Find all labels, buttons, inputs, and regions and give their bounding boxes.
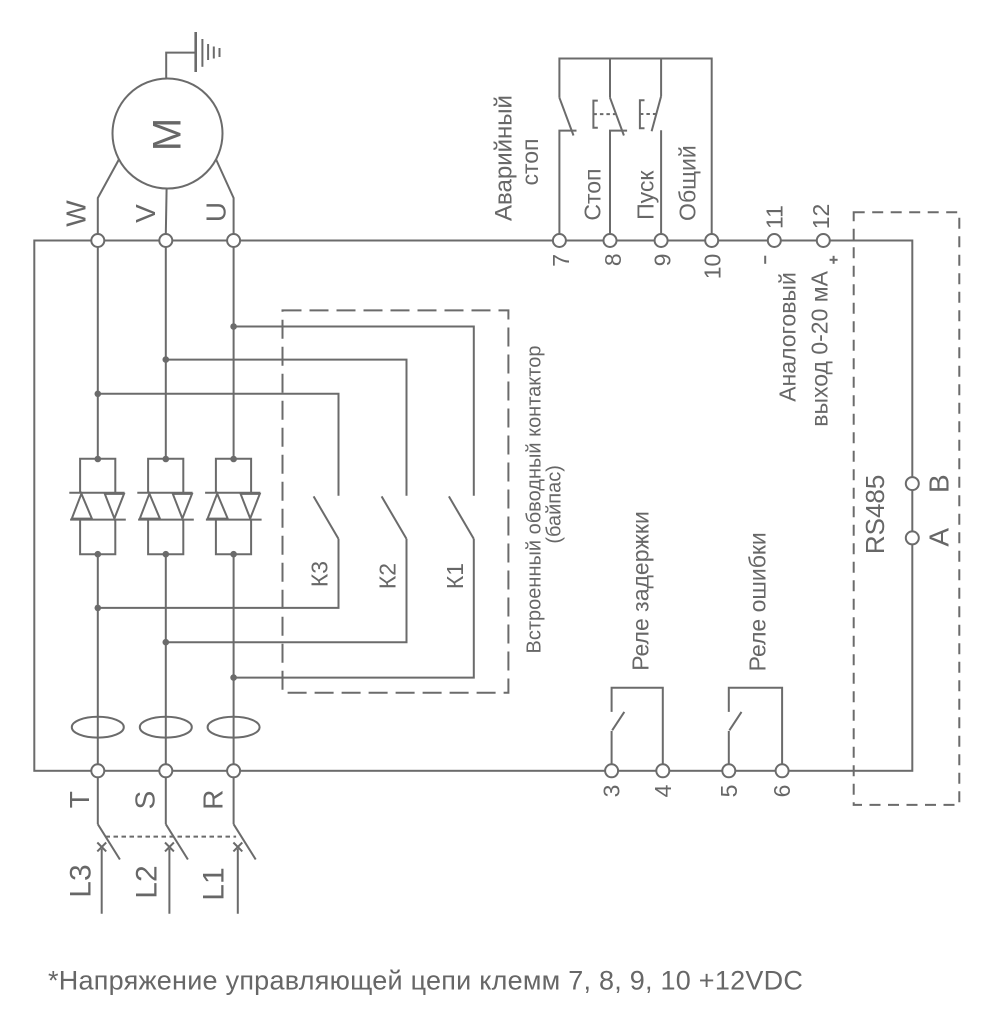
switch S8 pushbutton actuator bbox=[593, 101, 615, 128]
svg-text:К1: К1 bbox=[442, 563, 468, 589]
terminal R bbox=[227, 764, 240, 777]
svg-text:RS485: RS485 bbox=[860, 475, 890, 555]
svg-text:11: 11 bbox=[762, 205, 788, 229]
wire motor lead V bbox=[165, 188, 168, 234]
svg-text:К2: К2 bbox=[375, 563, 401, 589]
label analog output bbox=[774, 270, 832, 426]
thyristor pair W bbox=[69, 456, 126, 558]
terminal 10 bbox=[705, 234, 718, 247]
svg-text:Встроенный обводный контактор: Встроенный обводный контактор bbox=[524, 346, 546, 654]
svg-text:Аварийный: Аварийный bbox=[491, 95, 518, 221]
svg-text:9: 9 bbox=[650, 254, 676, 267]
svg-text:B: B bbox=[923, 474, 954, 493]
svg-text:U: U bbox=[201, 202, 232, 222]
terminal 6 bbox=[776, 764, 789, 777]
current transformer U bbox=[208, 717, 260, 738]
svg-text:T: T bbox=[64, 791, 95, 808]
svg-text:Аналоговый: Аналоговый bbox=[774, 272, 800, 402]
supply L1 wire bbox=[233, 843, 242, 914]
svg-text:L1: L1 bbox=[198, 867, 231, 900]
wire terminal 9 top bbox=[660, 59, 662, 97]
disconnect switch R blade bbox=[234, 824, 256, 859]
svg-text:A: A bbox=[923, 528, 954, 547]
label plus bbox=[830, 256, 838, 264]
node W-K3 junction bottom bbox=[95, 605, 102, 612]
wire phase V vertical bbox=[165, 247, 167, 459]
terminal circles top line bbox=[91, 234, 919, 777]
current transformer W bbox=[72, 717, 124, 738]
label bypass contactor bbox=[524, 346, 566, 654]
thyristor pair V bbox=[137, 456, 194, 558]
relay 3-4 delay contact bbox=[612, 688, 663, 765]
node U-K1 junction bottom bbox=[230, 674, 237, 681]
disconnect switch S lead bbox=[165, 777, 167, 824]
svg-text:6: 6 bbox=[769, 785, 795, 798]
wire phase U vertical bbox=[233, 247, 235, 459]
wire motor lead W bbox=[98, 160, 119, 235]
terminal S bbox=[159, 764, 172, 777]
device box outline bbox=[34, 241, 912, 771]
bypass contactor dashed box bbox=[283, 310, 509, 692]
label minus bbox=[764, 256, 766, 264]
contact K3 blade bbox=[314, 496, 339, 539]
wire W to K3 top bbox=[98, 394, 339, 496]
svg-text:Пуск: Пуск bbox=[633, 170, 659, 220]
ground bbox=[166, 32, 219, 79]
svg-text:S: S bbox=[130, 791, 161, 810]
switch S7 bottom contact bbox=[559, 131, 576, 235]
svg-text:Реле задержки: Реле задержки bbox=[627, 511, 653, 671]
switch S9 start NO blade bbox=[652, 96, 662, 131]
svg-text:3: 3 bbox=[599, 785, 625, 798]
terminal 7 bbox=[553, 234, 566, 247]
terminal B bbox=[906, 477, 919, 490]
terminal A bbox=[906, 531, 919, 544]
disconnect switch R lead bbox=[233, 777, 235, 824]
RS485 dashed box bbox=[854, 212, 960, 805]
disconnect switch T blade bbox=[98, 824, 120, 859]
svg-text:(байпас): (байпас) bbox=[544, 465, 566, 544]
terminal 11 bbox=[768, 234, 781, 247]
wire K1 bottom to U bbox=[234, 539, 474, 678]
disconnect switch S blade bbox=[166, 824, 188, 859]
svg-text:8: 8 bbox=[600, 253, 626, 266]
wire motor lead U bbox=[216, 160, 234, 235]
svg-text:10: 10 bbox=[700, 254, 726, 280]
svg-text:7: 7 bbox=[548, 254, 574, 267]
terminal 9 bbox=[655, 234, 668, 247]
contact K1 blade bbox=[449, 496, 474, 539]
wire U to K1 top bbox=[234, 327, 474, 496]
node V-K2 junction bottom bbox=[163, 639, 170, 646]
wire terminal 9 bottom bbox=[660, 130, 662, 234]
svg-text:Общий: Общий bbox=[675, 145, 701, 221]
terminal 5 bbox=[722, 764, 735, 777]
wire K3 bottom to W bbox=[98, 539, 339, 608]
wire K2 bottom to V bbox=[166, 539, 407, 642]
svg-text:L2: L2 bbox=[131, 865, 164, 898]
svg-text:V: V bbox=[130, 204, 161, 223]
mechanical coupling dashed bbox=[106, 836, 237, 838]
wire V to K2 top bbox=[166, 360, 407, 496]
wire phase U lower vertical bbox=[233, 554, 235, 764]
svg-text:К3: К3 bbox=[307, 561, 333, 587]
svg-text:Стоп: Стоп bbox=[579, 169, 605, 221]
wire phase W lower vertical bbox=[97, 554, 99, 764]
terminal V bbox=[159, 234, 172, 247]
svg-text:R: R bbox=[198, 790, 229, 810]
terminal 8 bbox=[604, 234, 617, 247]
terminal T bbox=[91, 764, 104, 777]
terminal 4 bbox=[656, 764, 669, 777]
terminal U bbox=[227, 234, 240, 247]
current transformer V bbox=[140, 717, 192, 738]
wire phase W vertical bbox=[97, 247, 99, 459]
node V-K2 junction top bbox=[163, 356, 170, 363]
emergency stop top bus bbox=[559, 59, 711, 235]
svg-text:Реле ошибки: Реле ошибки bbox=[744, 532, 770, 671]
relay 5-6 error contact bbox=[729, 688, 782, 765]
supply L3 wire bbox=[97, 843, 106, 914]
wire phase V lower vertical bbox=[165, 554, 167, 764]
thyristor pair U bbox=[205, 456, 262, 558]
label emergency stop bbox=[491, 95, 544, 221]
contact K2 blade bbox=[382, 496, 407, 539]
node W-K3 junction top bbox=[95, 391, 102, 398]
svg-text:выход 0-20 мА: выход 0-20 мА bbox=[807, 270, 833, 426]
switch S9 pushbutton actuator bbox=[640, 100, 656, 128]
svg-text:M: M bbox=[146, 118, 190, 151]
supply L2 wire bbox=[165, 843, 174, 914]
node U-K1 junction top bbox=[230, 323, 237, 330]
wire terminal 8 top bbox=[609, 59, 611, 98]
svg-text:5: 5 bbox=[716, 785, 742, 798]
svg-text:W: W bbox=[60, 200, 91, 227]
svg-text:12: 12 bbox=[808, 204, 834, 230]
switch S7 emergency stop NC blade bbox=[559, 98, 573, 136]
terminal W bbox=[91, 234, 104, 247]
switch S8 bottom contact bbox=[610, 131, 627, 235]
motor M1 circle bbox=[113, 79, 223, 189]
disconnect switch T lead bbox=[97, 777, 99, 824]
svg-text:стоп: стоп bbox=[517, 138, 543, 185]
svg-text:L3: L3 bbox=[65, 864, 98, 897]
svg-text:4: 4 bbox=[650, 784, 676, 797]
terminal 12 bbox=[817, 234, 830, 247]
switch S8 stop NC blade bbox=[610, 98, 624, 136]
terminal 3 bbox=[605, 764, 618, 777]
svg-text:*Напряжение управляющей цепи к: *Напряжение управляющей цепи клемм 7, 8,… bbox=[48, 966, 803, 996]
